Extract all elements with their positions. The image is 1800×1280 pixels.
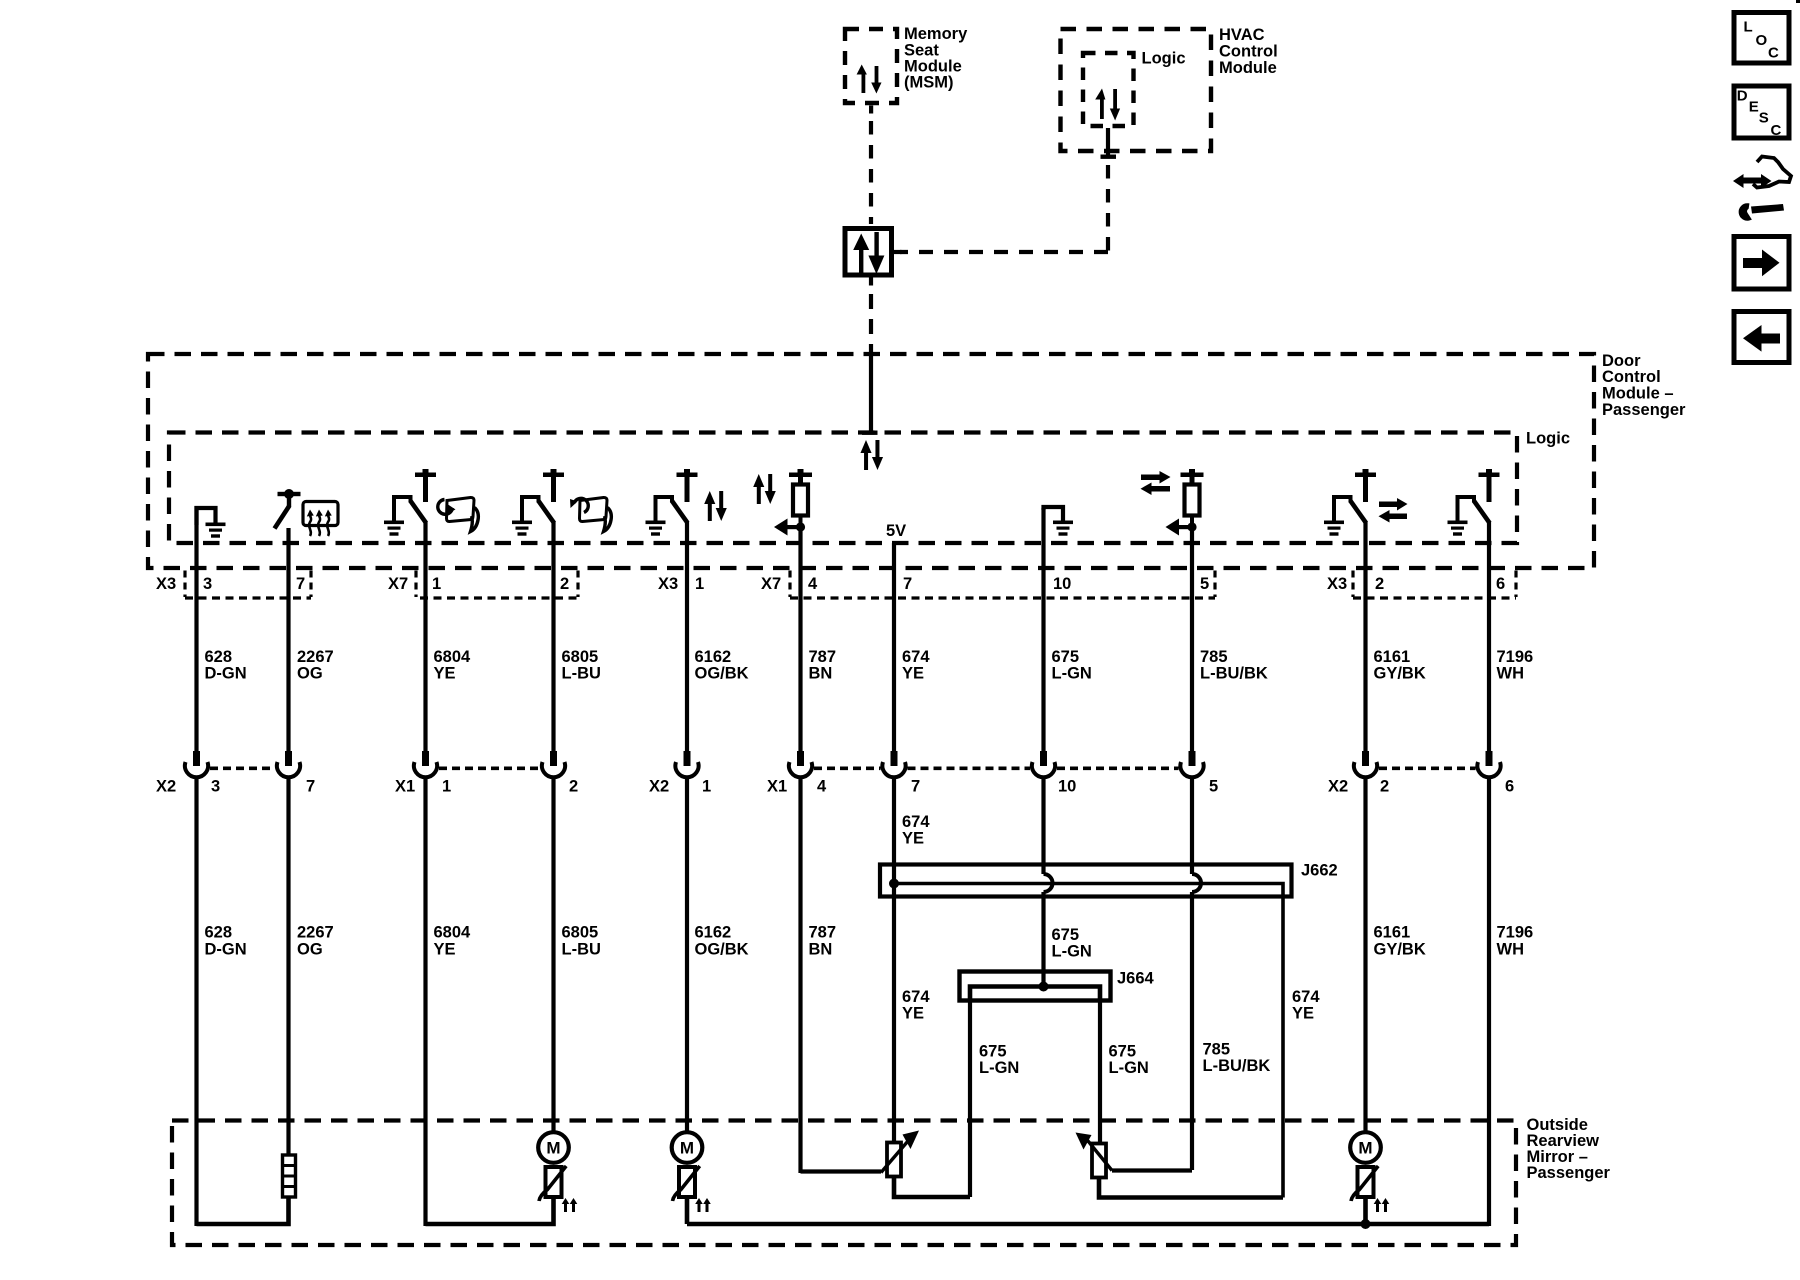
ground for pin X7-10 [1044,507,1074,536]
svg-text:628: 628 [205,924,233,942]
switch for pin X3-1 [646,469,698,536]
svg-text:D-GN: D-GN [205,665,247,683]
pin row 1 labels [156,575,1505,593]
svg-text:Passenger: Passenger [1527,1164,1611,1182]
switch for pin X3-6 [1448,469,1500,536]
pot 2 bottom wire to 674 right [1099,1178,1283,1198]
position sensor pot 1 [881,1131,919,1177]
label 675 L-GN above J664 [1052,926,1092,961]
svg-text:L-BU: L-BU [562,941,601,959]
svg-text:Module: Module [1219,59,1277,77]
svg-text:1: 1 [702,778,711,796]
up/down arrows pair 2 [753,474,776,504]
svg-text:L: L [1744,19,1753,36]
svg-text:Memory: Memory [904,25,968,43]
serial data arrow box (solid) [845,229,892,276]
svg-text:HVAC: HVAC [1219,26,1265,44]
svg-text:L-BU/BK: L-BU/BK [1200,665,1268,683]
svg-text:6162: 6162 [695,924,732,942]
svg-text:X3: X3 [658,575,678,593]
left-right arrows pair (switch X3-2) [1379,498,1408,523]
wire 628 upper [194,506,198,752]
svg-text:6: 6 [1505,778,1514,796]
HVAC Control Module dashed box [1061,29,1212,151]
svg-text:1: 1 [432,575,441,593]
position sensor pot 2 [1076,1133,1113,1178]
up/down arrows pair 1 [704,491,727,521]
svg-text:2: 2 [1380,778,1389,796]
switch for pin X3-2 [1324,469,1376,536]
svg-text:(MSM): (MSM) [904,74,953,92]
MSM internal up/down arrows [857,65,882,94]
motor 1 return [426,1197,554,1224]
wire 785 lower with hop at J662 [1190,777,1194,874]
svg-text:GY/BK: GY/BK [1374,665,1426,683]
svg-text:L-GN: L-GN [1109,1059,1149,1077]
mirror fold icon A [438,497,479,531]
icon: right arrow box [1734,237,1789,290]
svg-text:675: 675 [1109,1043,1137,1061]
svg-text:YE: YE [902,665,924,683]
pot 1 bottom wire to 675 left [894,1177,970,1198]
svg-text:OG: OG [297,941,323,959]
Memory Seat Module dashed box [845,29,897,103]
svg-text:C: C [1771,122,1782,139]
svg-text:Passenger: Passenger [1602,401,1686,419]
Logic dashed box [169,433,1517,544]
wire 7196 upper [1487,521,1491,752]
svg-text:7: 7 [911,778,920,796]
svg-text:X1: X1 [395,778,415,796]
pin rect group X3 (2,6) [1353,571,1516,599]
svg-text:X7: X7 [761,575,781,593]
svg-text:785: 785 [1200,648,1228,666]
HVAC logic dashed box [1083,53,1134,126]
wire 6161 upper [1363,521,1367,752]
wire 6805 lower [551,777,555,1133]
page corner mark [1796,0,1800,3]
svg-text:2267: 2267 [297,924,334,942]
svg-text:D: D [1737,88,1748,105]
icon: DESC box [1734,86,1789,139]
motor 2 [672,1132,703,1163]
svg-text:X3: X3 [1327,575,1347,593]
svg-text:D-GN: D-GN [205,941,247,959]
svg-text:X2: X2 [1328,778,1348,796]
svg-text:5: 5 [1200,575,1209,593]
svg-text:BN: BN [809,941,833,959]
wire 628 lower [194,777,198,1226]
svg-text:6161: 6161 [1374,648,1411,666]
svg-text:Module –: Module – [1602,385,1674,403]
svg-text:E: E [1749,99,1759,116]
svg-text:YE: YE [902,830,924,848]
Door Control Module dashed box [148,354,1594,568]
left-right arrows pair (pin 5) [1141,471,1171,495]
svg-text:YE: YE [434,941,456,959]
svg-text:674: 674 [1292,988,1320,1006]
pin rect group X7 (4,7,10,5) [790,571,1215,599]
svg-text:675: 675 [979,1043,1007,1061]
svg-text:L-BU: L-BU [562,665,601,683]
wire: MSM stub + dashed down to arrow box [869,106,873,225]
connector tie dashes [210,766,1476,770]
heater icon [303,502,338,537]
svg-text:X1: X1 [767,778,787,796]
svg-text:X2: X2 [156,778,176,796]
svg-text:6804: 6804 [434,924,472,942]
icon: left arrow box [1734,312,1789,363]
svg-text:L-BU/BK: L-BU/BK [1203,1057,1271,1075]
connector row labels [156,778,1514,796]
svg-text:Logic: Logic [1142,50,1186,68]
wire 6804 upper [423,521,427,752]
wire: HVAC stub with T foot [1101,128,1117,159]
wire 675 right branch from J664 [1098,1000,1102,1143]
svg-text:BN: BN [809,665,833,683]
svg-text:6805: 6805 [562,648,599,666]
svg-text:L-GN: L-GN [1052,943,1092,961]
svg-text:787: 787 [809,924,837,942]
svg-text:L-GN: L-GN [1052,665,1092,683]
wire: box bottom stub + dashed + solid down to logic top [862,278,878,435]
labels 674 YE lower pair [902,988,930,1023]
resistor for pin X7-4 [774,469,812,536]
motor 1 [538,1132,569,1163]
resistor for pin X7-5 [1166,469,1204,536]
svg-text:YE: YE [434,665,456,683]
svg-text:J662: J662 [1301,862,1338,880]
mirror fold icon B [570,497,611,531]
motor 3 stub down with junction dot [1363,1197,1368,1224]
svg-text:X7: X7 [388,575,408,593]
svg-text:OG/BK: OG/BK [695,941,749,959]
svg-text:L-GN: L-GN [979,1059,1019,1077]
HVAC module label [1219,26,1278,77]
svg-text:O: O [1756,32,1768,49]
svg-text:675: 675 [1052,926,1080,944]
wire 6805 upper [551,521,555,752]
heater driver switch for pin X3-7 [275,489,301,529]
switch for pin X7-1 [384,469,436,536]
svg-text:OG: OG [297,665,323,683]
svg-text:X3: X3 [156,575,176,593]
svg-text:2: 2 [1375,575,1384,593]
svg-text:5V: 5V [886,522,906,540]
wire: dashed from HVAC down and left to arrow box [894,165,1109,254]
svg-text:674: 674 [902,648,930,666]
svg-text:YE: YE [902,1005,924,1023]
wire 675 upper [1041,508,1045,752]
svg-text:WH: WH [1497,665,1525,683]
wire 6161 lower [1363,777,1367,1133]
center up/down arrows below logic top [860,440,883,470]
svg-text:C: C [1768,45,1779,62]
Door module label [1602,352,1686,419]
wire 2267 lower [286,777,290,1155]
svg-text:5: 5 [1209,778,1218,796]
svg-text:6162: 6162 [695,648,732,666]
svg-text:785: 785 [1203,1041,1231,1059]
wire 6804 lower [423,777,427,1226]
svg-text:OG/BK: OG/BK [695,665,749,683]
wire 2267 upper [286,528,290,752]
svg-text:2267: 2267 [297,648,334,666]
svg-text:YE: YE [1292,1005,1314,1023]
svg-text:X2: X2 [649,778,669,796]
svg-text:2: 2 [560,575,569,593]
svg-text:GY/BK: GY/BK [1374,941,1426,959]
svg-text:6804: 6804 [434,648,472,666]
svg-text:Control: Control [1602,368,1661,386]
svg-text:Control: Control [1219,43,1278,61]
wire 674 lower (to J662 and pot) [892,777,896,1142]
svg-text:3: 3 [203,575,212,593]
pot 2 wiper wire from 785 [1112,1168,1192,1172]
svg-text:7: 7 [903,575,912,593]
icon: shop rag + wrench [1733,157,1791,220]
svg-text:6805: 6805 [562,924,599,942]
label 674 YE upper middle [902,813,930,848]
ground for pin X3-3 [197,508,226,538]
heater element [283,1155,296,1197]
motor 2 stub down [685,1197,690,1224]
svg-text:1: 1 [695,575,704,593]
wire 675 left branch from J664 [968,1000,972,1197]
mirror box label [1527,1116,1611,1182]
motor 3 [1350,1132,1381,1163]
svg-text:10: 10 [1053,575,1071,593]
svg-text:6: 6 [1496,575,1505,593]
svg-text:787: 787 [809,648,837,666]
wire 674 upper (5V) [892,543,896,752]
svg-text:S: S [1759,110,1769,127]
svg-text:675: 675 [1052,648,1080,666]
wire 785 upper [1190,526,1194,752]
MSM label [904,25,968,92]
heater return wire [197,1197,289,1224]
svg-text:2: 2 [569,778,578,796]
svg-text:10: 10 [1058,778,1076,796]
svg-text:6161: 6161 [1374,924,1411,942]
HVAC internal up/down arrows [1095,89,1120,121]
svg-text:J664: J664 [1117,970,1155,988]
pot 1 wiper wire from 787 [801,1169,882,1173]
wire 7196 lower [1487,777,1491,1226]
labels 675/675/785 bottom row [979,1043,1019,1078]
svg-text:4: 4 [808,575,818,593]
svg-text:Logic: Logic [1526,430,1570,448]
svg-text:3: 3 [211,778,220,796]
wire 675 lower with hop at J662 [1041,777,1045,874]
svg-text:628: 628 [205,648,233,666]
pin rect group X7 (1,2) [416,571,578,599]
svg-text:7: 7 [306,778,315,796]
switch for pin X7-2 [512,469,564,536]
svg-text:674: 674 [902,988,930,1006]
svg-text:4: 4 [817,778,827,796]
svg-text:7196: 7196 [1497,924,1534,942]
svg-text:7: 7 [296,575,305,593]
icon: LOC box [1734,13,1789,64]
svg-text:7196: 7196 [1497,648,1534,666]
wire 6162 lower [685,777,689,1133]
wire 6162 upper [685,522,689,752]
wire 787 lower [798,777,802,1173]
common return wire to 7196 [687,1222,1489,1227]
pin rect group X3 (3,7) [185,571,311,599]
svg-text:674: 674 [902,813,930,831]
wire 787 upper [798,527,802,752]
svg-text:WH: WH [1497,941,1525,959]
svg-text:1: 1 [442,778,451,796]
